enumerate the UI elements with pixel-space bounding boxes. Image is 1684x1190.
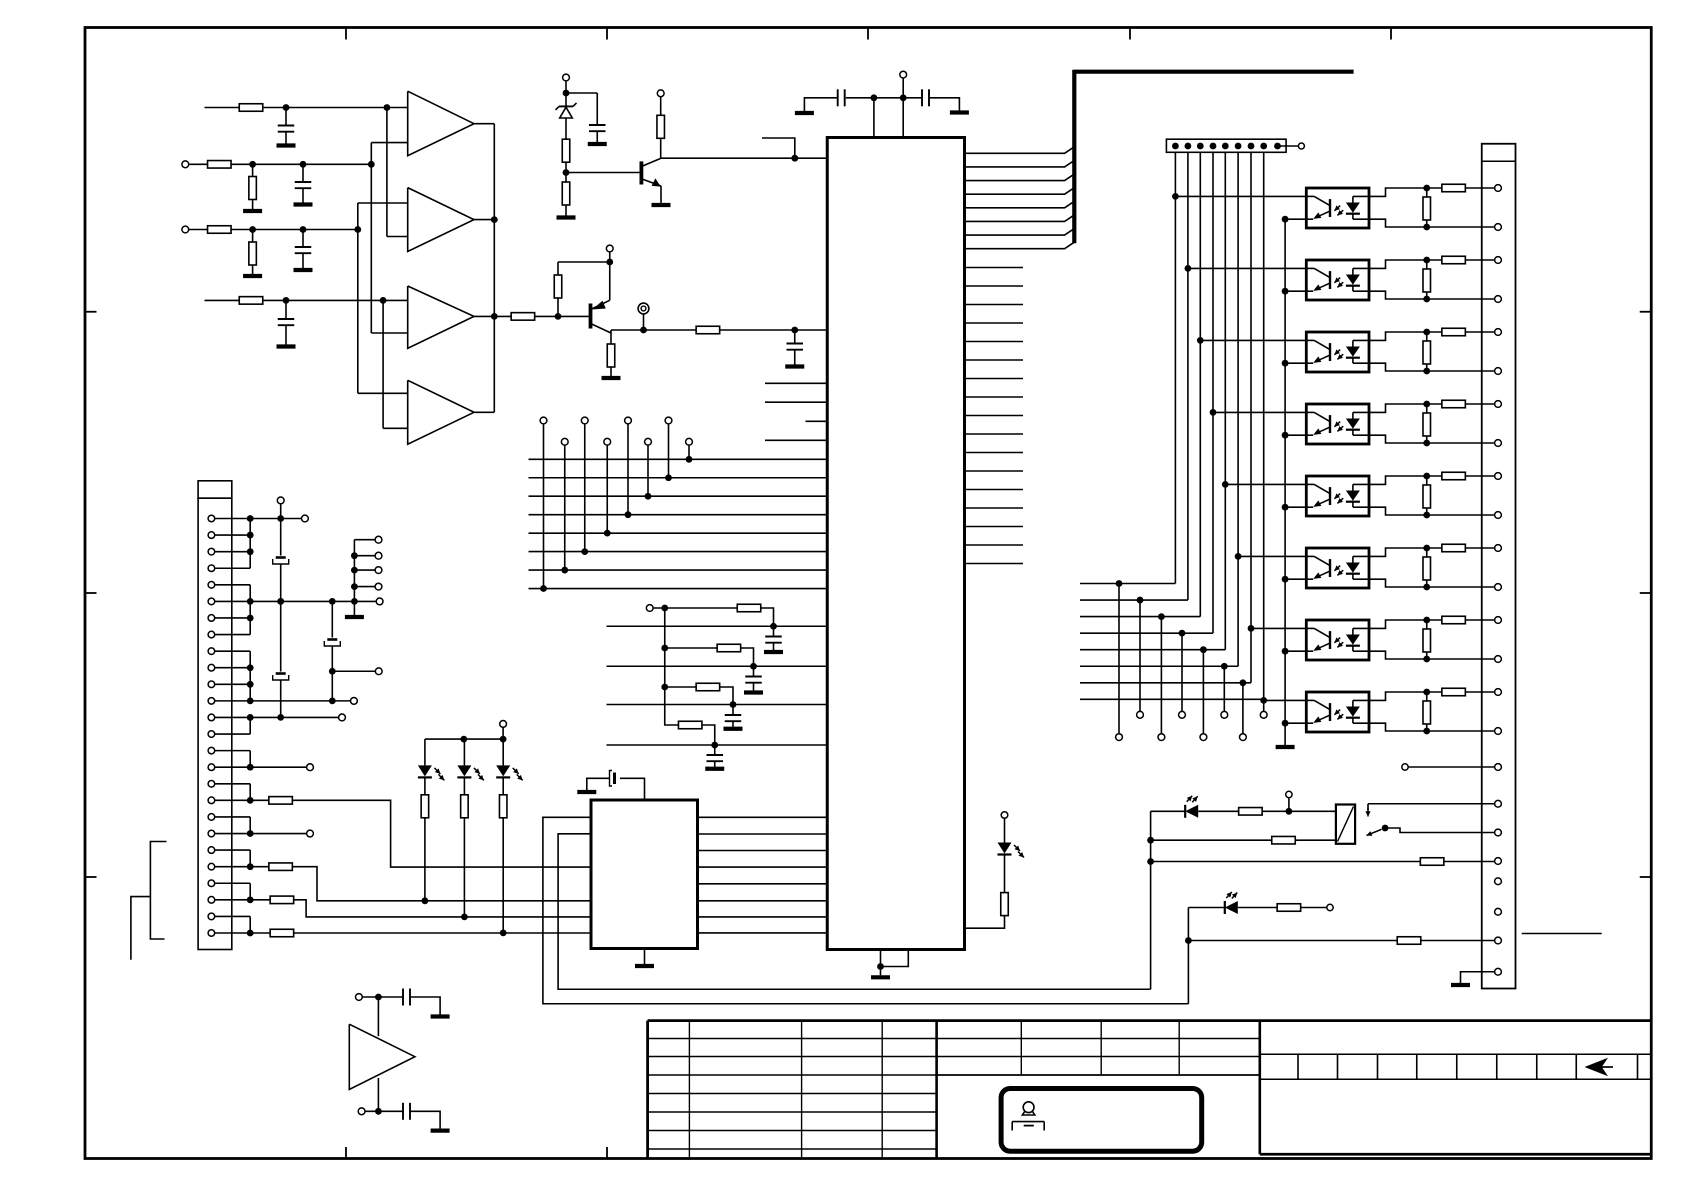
junction fan3 stub	[1158, 613, 1165, 620]
wire U1C output	[474, 315, 494, 317]
capacitor C7	[846, 97, 874, 99]
wire pin12 net right	[250, 700, 350, 702]
junction opto8 tap	[1260, 697, 1267, 704]
title block rows left	[648, 1038, 937, 1040]
wire net row1-U1B vertical	[386, 108, 388, 237]
wire R8 top	[558, 261, 610, 263]
bus thick vertical	[1072, 70, 1076, 244]
wire opto7 cathode to common	[1285, 650, 1306, 652]
LED D1	[424, 739, 426, 765]
wire threshold bus lines to U2	[607, 625, 828, 627]
wire fan8 stub down	[1263, 699, 1265, 711]
junction keypad col-row5	[604, 530, 611, 537]
wire U2 data pin jog 6	[965, 215, 1075, 222]
wire R18 to U3	[293, 800, 592, 867]
wire C7 left to ground	[804, 98, 837, 111]
crystal Y1	[613, 773, 616, 785]
wire fan4 stub down	[1181, 633, 1183, 711]
border zone tick marks left	[85, 311, 97, 313]
junction row3 node	[354, 226, 361, 233]
wire pin20 net right	[250, 833, 306, 835]
resistor R23	[1272, 836, 1296, 844]
resistor R32 shunt	[1426, 188, 1428, 198]
wire opto8 output bottom rail	[1369, 723, 1495, 731]
junction opto5 R pullup	[1423, 473, 1430, 480]
wire J2 pin4 vertical	[1212, 152, 1214, 633]
resistor R22 series	[1442, 184, 1466, 192]
wire R15 to line2	[741, 648, 754, 666]
ground R3	[243, 209, 262, 213]
resistor R7	[511, 313, 535, 321]
wire U2 data pin jog 1	[965, 147, 1075, 154]
revision arrow	[1585, 1058, 1609, 1076]
wire U1B upper input	[358, 202, 408, 204]
wire net row4-U1D vertical	[382, 300, 384, 428]
wire opto7 output top rail	[1369, 620, 1495, 628]
junction row4-cap	[283, 297, 290, 304]
wire J2 pin7 vertical	[1250, 152, 1252, 683]
capacitor C17	[402, 1103, 404, 1120]
junction keypad col-row7	[561, 567, 568, 574]
optocoupler U12 light arrows	[1334, 710, 1340, 715]
wire U1D upper input	[358, 392, 408, 394]
wire U3 ground pin	[644, 949, 646, 965]
wire opto5 cathode to common	[1285, 506, 1306, 508]
test point TP1	[638, 303, 649, 314]
wire C8 right to ground	[929, 98, 959, 111]
terminal fan2	[1137, 711, 1144, 718]
wire U2 data pin jog 3	[965, 174, 1075, 181]
junction opto4 bottom rail	[1423, 440, 1430, 447]
junction bus1-coil	[1147, 837, 1154, 844]
wire J1 pins17-18 group	[215, 783, 251, 785]
wire J1 pins9-12 group	[215, 650, 251, 652]
bracket group marker A	[150, 842, 166, 940]
optocoupler U5 body	[1306, 188, 1369, 228]
bus thick horizontal top	[1074, 70, 1353, 74]
capacitor C16	[402, 989, 404, 1006]
resistor R23 series	[1442, 256, 1466, 264]
wire Q2 output	[611, 329, 828, 331]
wire R23 to coil bottom	[1295, 839, 1336, 841]
terminal fan3	[1158, 734, 1165, 741]
junction row2-C2	[300, 161, 307, 168]
junction fan7 stub	[1240, 679, 1247, 686]
optocoupler U6 body	[1306, 260, 1369, 300]
ground C11	[724, 727, 743, 731]
transistor Q2 base bar	[589, 304, 593, 329]
optocoupler U8 body	[1306, 404, 1369, 444]
wire opto1 output bottom rail	[1369, 219, 1495, 227]
junction opto1 tap	[1172, 193, 1179, 200]
wire VCC pin U2	[902, 98, 904, 138]
wire Y1 to ground	[587, 778, 610, 790]
transistor Q1 base bar	[640, 161, 644, 184]
wire opto7 output bottom rail	[1369, 651, 1495, 659]
border zone tick marks right	[1640, 311, 1652, 313]
border zone tick marks bottom	[345, 1147, 347, 1159]
connector J2 header box	[1166, 139, 1286, 152]
wire J2 pin9 to terminal	[1278, 145, 1299, 147]
junction opto3 bottom rail	[1423, 368, 1430, 375]
wire fan line 6	[1080, 665, 1238, 667]
junction coil supply terminal	[1286, 808, 1293, 815]
keypad column terminal x628	[625, 417, 632, 424]
junction opto6 R pullup	[1423, 545, 1430, 552]
wire opto6 cathode to common	[1285, 578, 1306, 580]
capacitor C13 polarized	[280, 519, 282, 556]
terminal fan stub 3	[351, 567, 358, 574]
wire opto5 output top rail	[1369, 476, 1495, 484]
wire fan line 3	[1080, 616, 1200, 618]
wire row3 cont	[253, 229, 358, 231]
optocoupler U11 LED	[1346, 635, 1360, 645]
terminal LED supply	[500, 721, 507, 728]
wire Q1 emitter to ground	[660, 186, 662, 203]
ground C7	[795, 111, 814, 115]
capacitor C10	[753, 666, 755, 676]
wire J2 pin2 vertical	[1187, 152, 1189, 600]
junction line3	[730, 701, 737, 708]
wire row3	[189, 229, 253, 231]
resistor R25	[1277, 904, 1301, 912]
ground C10	[744, 690, 763, 694]
transistor Q2 emitter diagonal	[591, 300, 610, 309]
wire fan line 4	[1080, 632, 1213, 634]
resistor R29 series	[1442, 688, 1466, 696]
resistor R13 pullup	[657, 115, 665, 138]
wire C17 to ground	[410, 1111, 440, 1128]
op-amp U4 buffer	[349, 1024, 415, 1089]
junction line1	[770, 623, 777, 630]
wire R7 to Q2 base	[535, 315, 591, 317]
resistor R15	[665, 647, 717, 649]
wire U3 pin2 to bus1	[558, 834, 1151, 989]
resistor R36 shunt	[1426, 476, 1428, 486]
wire D3 to row	[502, 818, 504, 933]
terminal Q1 supply	[563, 74, 570, 81]
junction opto4 R pullup	[1423, 401, 1430, 408]
resistor R4	[208, 226, 232, 234]
junction Q2 base-R8	[555, 313, 562, 320]
wire D1 to row	[424, 818, 426, 901]
wire fan2 stub down	[1139, 600, 1141, 711]
optocoupler U5 LED	[1346, 203, 1360, 213]
junction bus2-D5row	[1185, 937, 1192, 944]
terminal fan4	[1179, 711, 1186, 718]
wire J2 pin1 vertical	[1174, 152, 1176, 583]
junction fan5 stub	[1200, 646, 1207, 653]
wire fan6 stub down	[1223, 666, 1225, 711]
wire D5 to R25	[1238, 907, 1277, 909]
zener diode Z1	[559, 105, 573, 107]
resistor R-D3	[499, 795, 507, 818]
junction D2	[461, 914, 468, 921]
junction opto4 tap	[1210, 409, 1217, 416]
resistor R18	[269, 797, 293, 805]
junction VCC-caps	[900, 94, 907, 101]
wire opto4 output top rail	[1369, 404, 1495, 412]
terminal fan stub 4	[351, 583, 358, 590]
wire fan line 7	[1080, 682, 1251, 684]
junction Q1 output	[791, 155, 798, 162]
wire row4 input	[205, 299, 287, 301]
junction capchain mid	[277, 598, 284, 605]
junction contact	[1382, 825, 1389, 832]
wire J3 ground pin	[1461, 972, 1495, 983]
junction row2 node	[368, 161, 375, 168]
resistor R39 shunt	[1426, 692, 1428, 702]
wire J1 pins15-16 group	[215, 750, 251, 752]
terminal D6 top	[1001, 812, 1008, 819]
optocoupler U5 phototransistor	[1329, 199, 1331, 217]
capacitor C5	[794, 330, 796, 343]
junction capchain bottom	[277, 714, 284, 721]
optocoupler U8 LED	[1346, 419, 1360, 429]
optocoupler U12 body	[1306, 692, 1369, 732]
wire output bus vertical	[493, 124, 495, 413]
wire Q1 collector up	[660, 139, 662, 159]
wire row1 input	[205, 107, 287, 109]
resistor R27	[1001, 893, 1009, 916]
terminal fan5	[1200, 734, 1207, 741]
wire J1 pins13-14 group	[215, 716, 251, 718]
wire LED anode row	[425, 738, 503, 740]
terminal buffer input	[356, 994, 363, 1001]
resistor R28 series	[1442, 616, 1466, 624]
wire opto6 output bottom rail	[1369, 579, 1495, 587]
junction opto5 bottom rail	[1423, 512, 1430, 519]
ground pin6 net	[345, 615, 364, 619]
op-amp U1B	[408, 188, 474, 252]
wire J1 pins5-8 group	[215, 584, 251, 586]
wire pin18 net to R18	[250, 799, 269, 801]
optocoupler U8 phototransistor	[1329, 415, 1331, 433]
optocoupler U9 phototransistor	[1329, 487, 1331, 505]
capacitor C6	[596, 93, 598, 125]
optocoupler U11 phototransistor	[1329, 631, 1331, 649]
resistor R24 series	[1442, 328, 1466, 336]
IC U2 microcontroller body	[827, 138, 964, 950]
wire ladder vertical C-D	[665, 687, 679, 725]
terminal row3	[182, 226, 189, 233]
junction opto2 tap	[1185, 265, 1192, 272]
keypad column terminal x584	[581, 417, 588, 424]
wire fan1 stub down	[1118, 584, 1120, 734]
wire R21 to U3 via LED3 row	[294, 932, 591, 934]
resistor R19	[269, 863, 293, 871]
junction fan4 stub	[1179, 630, 1186, 637]
ground C16	[431, 1014, 450, 1018]
wire bus1 vertical right	[1150, 811, 1152, 989]
wire pin6 net right	[250, 600, 376, 602]
resistor R1	[239, 104, 263, 112]
optocoupler U6 light arrows	[1334, 278, 1340, 283]
wire net row2-U1A-U1C vertical	[370, 143, 372, 333]
connector J1 header box	[198, 481, 232, 498]
wire J1 pins21-22 group	[215, 849, 251, 851]
wire opto8 cathode to common	[1285, 722, 1306, 724]
logo desk icon	[1012, 1121, 1044, 1123]
optocoupler U10 light arrows	[1334, 566, 1340, 571]
resistor R5 to ground	[252, 230, 254, 243]
optocoupler U12 LED	[1346, 707, 1360, 717]
junction U2 ground pins	[877, 963, 884, 970]
logo box	[1001, 1089, 1202, 1152]
junction keypad col-row8	[540, 585, 547, 592]
wire U1D lower input	[383, 427, 408, 429]
ground U2	[871, 975, 890, 979]
optocoupler U7 LED	[1346, 347, 1360, 357]
wire opto3 cathode to common	[1285, 362, 1306, 364]
wire R14 to line1	[761, 608, 774, 626]
keypad column terminal x543	[540, 417, 547, 424]
terminal coil test	[1286, 791, 1292, 797]
wire pin1 net right	[250, 518, 301, 520]
junction opto8 bottom rail	[1423, 728, 1430, 735]
terminal fan6	[1221, 711, 1228, 718]
wire U1B output	[474, 219, 494, 221]
wires U3 to U2 interconnect	[698, 816, 828, 818]
connector J3 top cell line	[1482, 160, 1516, 162]
capacitor C15 polarized	[331, 601, 333, 637]
optocoupler U9 LED	[1346, 491, 1360, 501]
resistor R8 pullup	[557, 298, 559, 317]
wire to C6	[566, 92, 597, 94]
LED D6	[998, 843, 1012, 854]
wire R20 to U3 via LED2 row	[294, 900, 591, 917]
keypad column terminal x607	[604, 438, 611, 445]
optocoupler U7 phototransistor	[1329, 343, 1331, 361]
junction buffer output	[375, 1108, 382, 1115]
capacitor C9	[773, 626, 775, 636]
wire opto1 cathode to common	[1285, 218, 1306, 220]
wire opto cathode common vertical	[1284, 219, 1286, 743]
optocoupler U10 phototransistor	[1329, 559, 1331, 577]
junction line4	[711, 742, 718, 749]
junction opto7 bottom rail	[1423, 656, 1430, 663]
ground Y1	[577, 790, 596, 794]
terminal buffer output	[358, 1108, 365, 1115]
junction row1-cap	[283, 104, 290, 111]
wire moving contact to J3	[1385, 828, 1495, 833]
ground C4	[277, 344, 296, 348]
resistor R14	[737, 604, 761, 612]
wire J1 pins1-4 group	[215, 518, 251, 520]
junction row4 node	[380, 297, 387, 304]
wire J3 aux stub right	[1522, 933, 1602, 935]
resistor R12	[562, 182, 570, 205]
junction Q1 base node	[563, 169, 570, 176]
junction opto1 R pullup	[1423, 185, 1430, 192]
resistor R9 emitter-gnd	[607, 344, 615, 367]
wire row2	[189, 163, 253, 165]
resistor R33 shunt	[1426, 260, 1428, 270]
junction keypad col-row3	[645, 493, 652, 500]
wire R27 to U2	[965, 915, 1005, 928]
wire fan line 1	[1080, 583, 1175, 585]
terminal fan7	[1240, 734, 1247, 741]
connector J3 lower pin circles	[1495, 764, 1502, 771]
wire J2 pin8 vertical	[1263, 152, 1265, 699]
U2 left pin stubs	[765, 382, 827, 384]
ground R12	[557, 215, 576, 219]
wire fan3 stub down	[1160, 617, 1162, 734]
wire pin24 net to R20	[250, 899, 270, 901]
relay contact moving	[1367, 829, 1382, 835]
connector J2 pin dots	[1172, 143, 1179, 150]
wire opto3 output top rail	[1369, 332, 1495, 340]
wire U3 XTAL pin	[620, 778, 645, 800]
wire opto4 input	[1213, 411, 1306, 413]
junction keypad col-row4	[625, 511, 632, 518]
junction Q2 emitter node	[606, 259, 613, 266]
optocoupler U6 LED	[1346, 275, 1360, 285]
junction opto8 R pullup	[1423, 689, 1430, 696]
relay K1 coil	[1336, 805, 1355, 844]
junction ladder node C	[661, 684, 668, 691]
terminal Q2 supply	[606, 245, 613, 252]
ground J3	[1451, 983, 1470, 987]
wire R24 to J3	[1444, 861, 1495, 863]
wire R16 to line3	[720, 687, 733, 705]
optocoupler U11 body	[1306, 620, 1369, 660]
junction pin6-gnd branch	[351, 598, 358, 605]
wire J2 pin3 vertical	[1199, 152, 1201, 616]
op-amp U1D	[408, 380, 474, 444]
wire D2 to row	[463, 818, 465, 917]
resistor R10	[696, 326, 720, 334]
wire fan line 8	[1080, 698, 1264, 700]
wire U2 data pin jog 7	[965, 229, 1075, 236]
transistor Q1 collector diagonal	[641, 158, 660, 166]
wire U1D output	[474, 411, 494, 413]
junction pin6-C15	[329, 598, 336, 605]
ground C12	[705, 767, 724, 771]
resistor R26	[1397, 937, 1421, 945]
junction TP1	[640, 327, 647, 334]
wire J1 pins23-24 group	[215, 882, 251, 884]
wire Q2 emitter to node	[609, 262, 611, 300]
wire net row3-U1B-U1D vertical	[357, 203, 359, 393]
resistor R3 to ground	[252, 164, 254, 176]
resistor R2	[208, 161, 232, 169]
junction U1B output	[491, 216, 498, 223]
resistor R22	[1239, 808, 1263, 816]
wire aux net to J3	[1151, 861, 1421, 863]
optocoupler U10 LED	[1346, 563, 1360, 573]
U2 right pin stubs	[965, 267, 1024, 269]
bracket group marker B	[131, 897, 150, 960]
ground C2	[294, 202, 313, 206]
capacitor C2	[302, 164, 304, 181]
wire U1B lower input	[387, 236, 408, 238]
junction opto3 tap	[1197, 337, 1204, 344]
wire opto2 cathode to common	[1285, 290, 1306, 292]
wire opto8 output top rail	[1369, 692, 1495, 700]
junction keypad col-row1	[686, 456, 693, 463]
terminal RC ladder input	[646, 605, 653, 612]
junction U1C output	[491, 313, 498, 320]
wire U1A lower input	[371, 142, 407, 144]
junction line2	[750, 663, 757, 670]
LED D3	[502, 739, 504, 765]
resistor R35 shunt	[1426, 404, 1428, 414]
junction buffer input	[375, 994, 382, 1001]
wire J1 pins19-20 group	[215, 816, 251, 818]
title block middle rows	[937, 1038, 1260, 1040]
junction keypad col-row2	[665, 474, 672, 481]
